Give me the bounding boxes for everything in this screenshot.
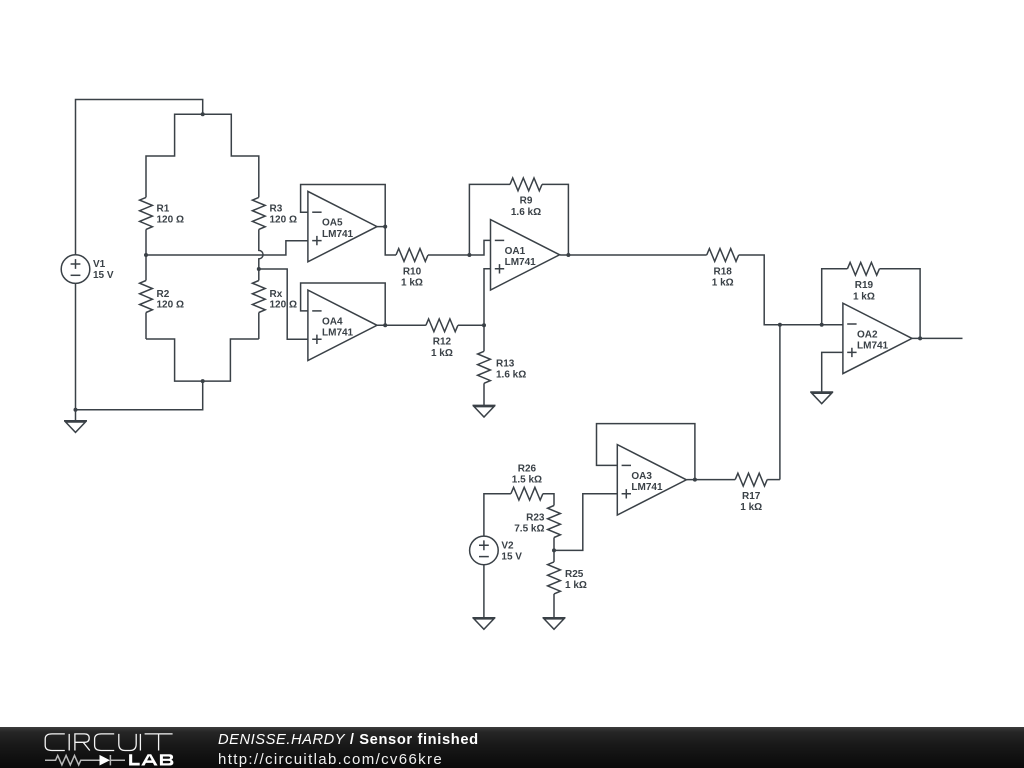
wire R12 to node bbox=[458, 324, 484, 326]
svg-text:R10: R10 bbox=[403, 266, 422, 277]
svg-text:OA5: OA5 bbox=[322, 218, 343, 229]
ground below V1 bbox=[64, 410, 87, 433]
wire OA4 feedback bbox=[301, 283, 386, 325]
voltage source V2 bbox=[470, 536, 523, 565]
wire node B to OA4 plus bbox=[259, 269, 308, 339]
wire R26 to R23 bbox=[543, 494, 554, 506]
footer text line 1 bbox=[218, 732, 479, 749]
resistor R17 1 kΩ bbox=[735, 473, 767, 513]
resistor R23 7.5 kΩ bbox=[514, 506, 560, 538]
node R23 R25 junction bbox=[552, 548, 556, 552]
wire R1 bottom lead bbox=[145, 229, 147, 255]
wire R2 top lead bbox=[145, 255, 147, 281]
node OA2 output bbox=[918, 336, 922, 340]
ground below R25 bbox=[543, 618, 566, 630]
wire OA5 feedback bbox=[301, 185, 386, 227]
svg-text:1 kΩ: 1 kΩ bbox=[712, 278, 734, 289]
wire OA1 output to R18 bbox=[560, 254, 707, 256]
wire OA4 output to R12 bbox=[377, 324, 426, 326]
wire R17 right lead bbox=[767, 479, 780, 481]
wire R19 feedback left bbox=[822, 269, 848, 325]
svg-text:7.5 kΩ: 7.5 kΩ bbox=[514, 524, 544, 535]
wire into OA1 inverting input bbox=[469, 240, 490, 255]
svg-text:1.5 kΩ: 1.5 kΩ bbox=[512, 475, 542, 486]
wire V2 bottom bbox=[483, 565, 485, 618]
node OA4 output bbox=[383, 323, 387, 327]
svg-text:R2: R2 bbox=[157, 289, 170, 300]
svg-text:R9: R9 bbox=[520, 196, 533, 207]
resistor R3 120 Ω bbox=[252, 197, 297, 229]
resistor R19 1 kΩ bbox=[847, 262, 879, 302]
resistor R13 1.6 kΩ bbox=[478, 351, 527, 383]
wire bottom rail to bridge bbox=[76, 381, 203, 410]
svg-text:LM741: LM741 bbox=[505, 257, 537, 268]
wire bridge bottom left bbox=[146, 339, 203, 381]
svg-text:1 kΩ: 1 kΩ bbox=[431, 348, 453, 359]
svg-text:V2: V2 bbox=[501, 540, 514, 551]
wire R18 to OA2 net bbox=[739, 255, 780, 325]
svg-text:1 kΩ: 1 kΩ bbox=[401, 278, 423, 289]
resistor R1 120 Ω bbox=[140, 197, 184, 229]
wire bridge mid to OA5 plus bbox=[146, 241, 308, 255]
wire OA3 noninverting input bbox=[554, 494, 617, 551]
wire OA3 output to R17 bbox=[686, 479, 735, 481]
node OA1 noninverting net bbox=[482, 323, 486, 327]
svg-text:1.6 kΩ: 1.6 kΩ bbox=[496, 369, 526, 380]
wire bridge top to R3 bbox=[203, 114, 259, 197]
voltage source V1 bbox=[61, 255, 114, 284]
node bridge bottom bbox=[201, 379, 205, 383]
op-amp OA2 LM741 bbox=[843, 303, 912, 373]
wire OA3 feedback bbox=[597, 424, 695, 480]
wire R2 bottom lead bbox=[145, 313, 147, 340]
wire R13 bottom lead bbox=[483, 383, 485, 405]
wire R25 bottom lead bbox=[553, 594, 555, 618]
op-amp OA1 LM741 bbox=[491, 220, 560, 290]
ground below R13 bbox=[473, 405, 496, 417]
svg-text:R12: R12 bbox=[433, 337, 452, 348]
ground at OA2 noninverting input bbox=[810, 392, 833, 404]
resistor R26 1.5 kΩ bbox=[511, 463, 543, 500]
resistor R25 1 kΩ bbox=[548, 562, 587, 594]
node bridge top bbox=[201, 112, 205, 116]
wire V2 top to R26 bbox=[484, 494, 511, 536]
resistor R10 1 kΩ bbox=[396, 249, 428, 289]
wire R23 bottom lead bbox=[553, 538, 555, 551]
op-amp OA5 LM741 bbox=[308, 191, 377, 261]
svg-text:R18: R18 bbox=[714, 266, 733, 277]
svg-text:1 kΩ: 1 kΩ bbox=[565, 580, 587, 591]
wire OA1 noninverting input bbox=[484, 269, 491, 326]
svg-text:R1: R1 bbox=[157, 204, 170, 215]
resistor R2 120 Ω bbox=[140, 281, 184, 313]
wire R9 feedback right bbox=[542, 184, 568, 255]
svg-text:15 V: 15 V bbox=[501, 552, 522, 563]
node OA2 input net left bbox=[778, 323, 782, 327]
op-amp OA3 LM741 bbox=[617, 445, 686, 515]
wire Rx top lead bbox=[258, 269, 260, 281]
node V1 negative junction bbox=[74, 408, 78, 412]
svg-text:R25: R25 bbox=[565, 569, 584, 580]
wire OA2 output bbox=[912, 337, 963, 339]
CircuitLab logo bbox=[0, 727, 190, 768]
resistor R18 1 kΩ bbox=[707, 249, 739, 289]
svg-text:R26: R26 bbox=[518, 463, 537, 474]
svg-text:OA1: OA1 bbox=[505, 246, 526, 257]
svg-text:1.6 kΩ: 1.6 kΩ bbox=[511, 207, 541, 218]
svg-text:R13: R13 bbox=[496, 358, 515, 369]
svg-text:R19: R19 bbox=[855, 280, 874, 291]
wire Rx bottom lead bbox=[258, 313, 260, 340]
resistor R12 1 kΩ bbox=[426, 319, 458, 359]
node OA3 output bbox=[693, 478, 697, 482]
wire V1 top to bridge top bbox=[76, 100, 203, 255]
footer bar bbox=[0, 727, 1024, 768]
wire OA5 output to R10 bbox=[377, 227, 396, 255]
node A bridge left mid bbox=[144, 253, 148, 257]
svg-text:120 Ω: 120 Ω bbox=[157, 300, 184, 311]
svg-text:LM741: LM741 bbox=[322, 229, 354, 240]
wire OA2 noninverting to ground bbox=[822, 352, 843, 392]
wire bridge top to R1 bbox=[146, 114, 203, 197]
wire R10 to OA1 input node bbox=[428, 254, 469, 256]
svg-text:LM741: LM741 bbox=[322, 328, 354, 339]
wire V1 bottom bbox=[75, 283, 77, 409]
svg-text:R3: R3 bbox=[270, 204, 283, 215]
svg-text:Rx: Rx bbox=[270, 289, 283, 300]
svg-text:OA4: OA4 bbox=[322, 316, 343, 327]
wire node to R13 bbox=[483, 325, 485, 351]
svg-text:1 kΩ: 1 kΩ bbox=[740, 502, 762, 513]
wire R3 bottom lead with hop bbox=[259, 229, 263, 269]
footer text line 2 bbox=[218, 751, 443, 768]
op-amp OA4 LM741 bbox=[308, 290, 377, 360]
svg-text:120 Ω: 120 Ω bbox=[270, 300, 297, 311]
svg-text:120 Ω: 120 Ω bbox=[157, 214, 184, 225]
resistor Rx 120 Ω bbox=[252, 281, 297, 313]
svg-text:120 Ω: 120 Ω bbox=[270, 214, 297, 225]
wire OA2 net down to R17 bbox=[779, 325, 781, 480]
svg-text:OA3: OA3 bbox=[631, 471, 652, 482]
svg-text:OA2: OA2 bbox=[857, 330, 878, 341]
node OA2 inverting input bbox=[820, 323, 824, 327]
svg-text:LM741: LM741 bbox=[631, 482, 663, 493]
svg-text:R17: R17 bbox=[742, 491, 761, 502]
wire to OA2 inverting input bbox=[780, 324, 843, 326]
svg-text:R23: R23 bbox=[526, 513, 545, 524]
svg-text:1 kΩ: 1 kΩ bbox=[853, 291, 875, 302]
node B bridge right mid bbox=[257, 267, 261, 271]
node OA1 output bbox=[566, 253, 570, 257]
wire R9 feedback left bbox=[469, 184, 510, 255]
ground below V2 bbox=[472, 618, 495, 630]
wire node to R25 bbox=[553, 550, 555, 562]
node OA5 output bbox=[383, 225, 387, 229]
svg-text:V1: V1 bbox=[93, 259, 106, 270]
node OA1 inverting input bbox=[467, 253, 471, 257]
resistor R9 1.6 kΩ bbox=[510, 178, 542, 218]
svg-text:LM741: LM741 bbox=[857, 341, 889, 352]
wire R19 feedback right bbox=[879, 269, 920, 339]
svg-text:15 V: 15 V bbox=[93, 270, 114, 281]
wire bridge bottom right bbox=[203, 339, 259, 381]
